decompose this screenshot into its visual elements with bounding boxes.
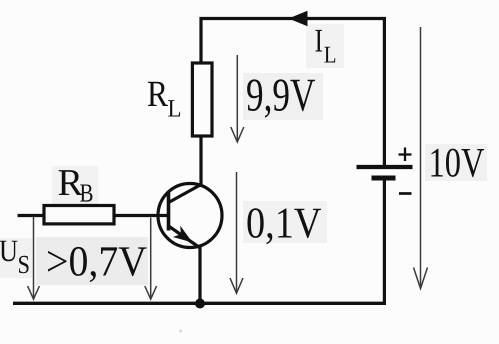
battery V1 positive plate (long)	[357, 165, 413, 169]
svg-text:I: I	[315, 23, 324, 59]
label RL	[147, 74, 182, 123]
battery minus sign	[399, 192, 412, 195]
transistor Q1 emitter diagonal	[169, 226, 200, 248]
wire: collector wire from top wire down to resistor RL	[199, 17, 202, 64]
svg-text:S: S	[18, 250, 31, 279]
svg-text:U: U	[0, 233, 18, 268]
wire: right wire from top down to battery	[383, 17, 386, 167]
transistor Q1 emitter arrowhead (filled, points down-right)	[173, 226, 193, 243]
svg-text:>0,7V: >0,7V	[46, 239, 147, 286]
source voltage arrow US (thin, downward chevron)	[28, 217, 40, 299]
wire: top wire from collector branch to battery plus	[200, 17, 387, 20]
svg-text:B: B	[80, 179, 94, 208]
label IL : load current	[315, 23, 337, 68]
voltage arrow 0,1V across transistor CE (thin, downward chevron)	[230, 172, 243, 293]
supply voltage arrow 10V (thin, downward chevron)	[414, 27, 428, 289]
transistor Q1 base bar	[167, 191, 171, 231]
battery V1 negative plate (short)	[372, 176, 396, 181]
voltage arrow 9,9V across RL (thin, downward chevron)	[231, 55, 244, 142]
base-emitter voltage arrow >0,7V (thin, downward chevron)	[145, 218, 157, 300]
wire: input wire to base resistor RB	[18, 214, 45, 217]
wire: from RL bottom down to transistor collector	[199, 136, 202, 185]
svg-text:9,9V: 9,9V	[246, 70, 316, 122]
label RB	[58, 162, 94, 208]
wire: from RB to transistor base	[114, 214, 169, 217]
svg-text:10V: 10V	[429, 141, 485, 187]
battery plus sign	[399, 148, 412, 162]
wire: bottom return wire	[13, 302, 386, 305]
svg-text:L: L	[324, 42, 337, 68]
svg-text:0,1V: 0,1V	[246, 199, 322, 248]
transistor Q1 collector diagonal	[169, 184, 203, 203]
label US : source voltage	[0, 233, 30, 279]
transistor Q1 circle (NPN)	[158, 184, 222, 248]
resistor RB (horizontal box)	[44, 206, 114, 224]
load current arrowhead on top wire (points left)	[289, 11, 308, 26]
wire: from battery negative plate down to bottom wire	[383, 178, 386, 305]
node: emitter/ground junction dot	[195, 299, 205, 309]
svg-text:R: R	[147, 74, 168, 115]
svg-text:L: L	[168, 96, 182, 123]
wire: emitter down to bottom node	[198, 247, 201, 304]
resistor RL (vertical box)	[192, 63, 212, 136]
